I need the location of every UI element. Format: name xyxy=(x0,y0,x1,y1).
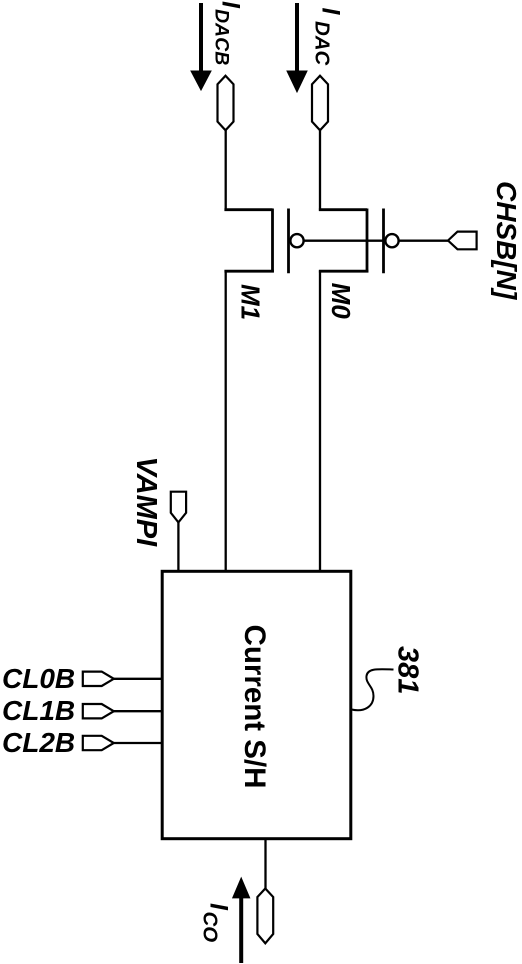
svg-text:CHSB[N]: CHSB[N] xyxy=(491,181,522,301)
svg-text:M1: M1 xyxy=(235,284,265,320)
svg-text:381: 381 xyxy=(392,646,424,694)
svg-text:Current S/H: Current S/H xyxy=(238,625,271,789)
svg-text:CL2B: CL2B xyxy=(2,727,75,758)
svg-text:CL0B: CL0B xyxy=(2,663,75,694)
svg-text:VAMPI: VAMPI xyxy=(130,457,162,548)
svg-text:M0: M0 xyxy=(326,283,356,320)
svg-text:CL1B: CL1B xyxy=(2,695,75,726)
